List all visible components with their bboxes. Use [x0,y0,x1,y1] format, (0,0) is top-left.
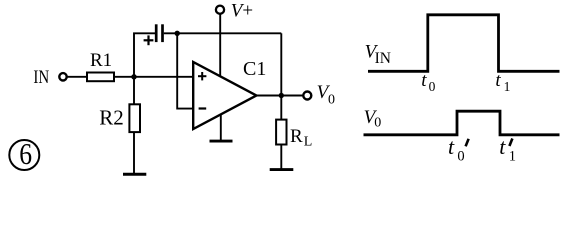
svg-text:L: L [304,135,313,150]
svg-text:0: 0 [328,93,335,108]
wire RL to ground [280,145,282,170]
ground under op-amp [210,140,233,143]
svg-text:V+: V+ [231,1,253,22]
svg-text:R2: R2 [99,105,124,129]
svg-text:C1: C1 [243,58,266,80]
capacitor plate right [161,24,164,42]
junction dot output [279,93,284,98]
wire node A up to capacitor [134,33,155,77]
wire IN to R1 [67,76,87,78]
wire output junction down to RL [280,96,282,120]
capacitor plate left [155,24,158,42]
resistor R2 [129,104,140,132]
ground under R2 [123,173,146,176]
wire R2 to ground [133,132,135,174]
svg-text:0: 0 [457,148,464,164]
resistor RL [276,120,286,145]
svg-text:6: 6 [19,138,32,172]
wire node A to noninverting input [134,76,194,78]
svg-text:0: 0 [429,79,436,94]
wire V+ down to op-amp [219,14,221,77]
terminal IN [59,73,66,80]
terminal V0 [303,92,311,100]
svg-text:R: R [290,126,303,147]
wire junction down to inverting input [177,33,193,108]
svg-text:t: t [448,134,455,159]
ground under RL [270,168,294,171]
svg-text:1: 1 [504,79,511,94]
wire feedback rail down to output [280,33,282,95]
svg-text:IN: IN [375,50,391,67]
capacitor polarity plus sign [144,39,154,41]
op-amp inverting - mark [199,107,207,109]
waveform V_IN trace [368,15,560,72]
svg-text:t: t [421,70,427,91]
wire capacitor to junction and feedback rail [164,32,281,34]
resistor R1 [87,73,114,82]
svg-text:t: t [499,134,506,159]
output wire from op-amp [257,95,304,97]
op-amp ground stub [220,114,222,141]
svg-text:1: 1 [509,148,516,164]
wire node A to R2 [133,77,135,105]
svg-text:0: 0 [374,115,381,130]
svg-text:R1: R1 [90,50,112,71]
circled figure number 6 [9,140,39,170]
waveform V_0 trace [364,111,560,135]
junction dot capacitor / inverting input [175,31,180,36]
op-amp noninverting + mark [198,75,206,77]
op-amp U1 triangle [193,62,256,129]
wire R1 to node A [114,76,134,78]
terminal V+ [216,6,224,14]
svg-text:t: t [495,70,501,91]
svg-text:IN: IN [33,67,49,88]
node A junction dot [131,74,136,79]
